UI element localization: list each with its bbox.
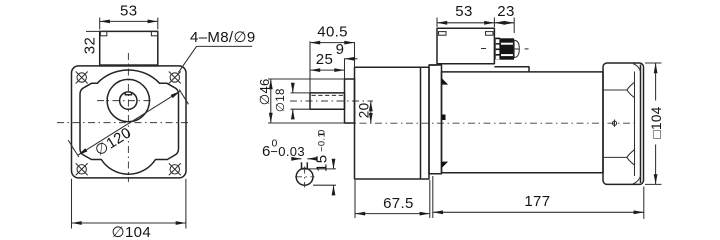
mounting hole bottom-right [169,163,181,175]
dimension 53 (side box) [437,3,494,27]
dimension 23 (cable gland) [494,3,514,33]
svg-text:53: 53 [120,3,137,20]
svg-text:9: 9 [336,41,345,58]
mounting hole top-right [169,72,181,84]
svg-text:−0.03: −0.03 [270,144,305,159]
flange clamp bottom [442,162,449,169]
front view: vertical centerline [127,53,129,182]
svg-text:∅46: ∅46 [257,78,272,105]
svg-text:20: 20 [357,103,372,119]
side view: output shaft centerline [290,100,373,102]
svg-text:∅18: ∅18 [275,88,287,112]
svg-text:67.5: 67.5 [383,195,414,212]
output shaft side [310,93,345,109]
svg-text:23: 23 [497,3,514,20]
svg-text:40.5: 40.5 [317,23,348,40]
gearbox inner contour with arcs [80,70,179,174]
dimension 177 (motor length) [433,176,644,219]
svg-text:∅104: ∅104 [112,224,152,239]
dimension 20 (axis offset) [357,101,372,123]
dimension phi120 diagonal [68,89,188,159]
svg-text:4–M8/∅9: 4–M8/∅9 [190,29,256,46]
dimension 6 -0.03 (key width) [262,138,316,161]
dimension 67.5 (gearbox length) [355,180,430,218]
svg-text:∅120: ∅120 [92,124,135,159]
side view: motor axis centerline [344,122,634,124]
svg-text:177: 177 [524,193,550,210]
svg-text:0: 0 [317,129,328,135]
fan cover [603,63,644,184]
dimension 40.5 (shaft overhang) [310,23,355,92]
dimension 32 (box height) [81,31,99,54]
dimension phi104 (flange width) [72,179,186,240]
label 4-M8/phi9 with leader [178,29,255,73]
flange outer square [72,66,187,178]
svg-text:32: 32 [81,37,98,54]
terminal box front [100,31,158,66]
svg-text:53: 53 [455,3,472,20]
dimension 25 (shaft length) [310,51,345,70]
front view: horizontal flange centerline [57,122,191,124]
dimension phi18 [275,86,310,116]
fan cover center mark [612,120,616,127]
shaft bore circle with keyway [120,92,137,109]
dimension phi46 [257,78,345,123]
dimension 15 -0.1 (key height) [307,129,336,193]
dimension square104 (motor frame) [645,63,664,184]
motor flange plate [429,65,442,174]
keyway hidden line [312,94,345,96]
svg-text:15: 15 [314,155,331,172]
box plinth [429,65,529,72]
cable gland [481,38,529,60]
shaft section circle with keyway flat [295,162,315,187]
gearbox body side [355,67,430,179]
dimension 9 (boss length) [336,41,358,79]
boss circle front [107,79,149,121]
mounting hole top-left [76,72,88,84]
motor body [442,72,604,173]
mounting hole bottom-left [76,163,88,175]
svg-text:□104: □104 [649,106,664,138]
front view: output shaft centerline [97,100,154,102]
svg-text:25: 25 [316,51,333,68]
flange key block [442,115,446,121]
shaft boss phi46 [345,79,355,123]
dimension 53 (front box width) [100,3,158,30]
flange clamp top [442,78,449,85]
terminal box side [437,28,494,64]
